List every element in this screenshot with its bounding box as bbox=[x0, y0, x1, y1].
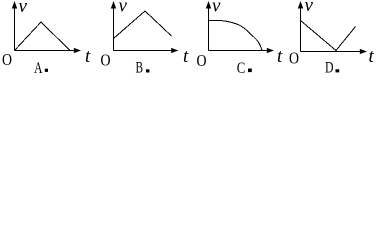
panel C: quarter-ellipse curve bbox=[209, 21, 263, 51]
panel A: v-axis bbox=[14, 6, 16, 51]
panel A: caption dot bbox=[45, 69, 48, 72]
svg-text:A: A bbox=[34, 60, 43, 77]
panel B: v-axis bbox=[113, 6, 115, 51]
panel D: V-shape curve bbox=[301, 21, 356, 51]
panel D: caption dot bbox=[336, 69, 340, 72]
panel A: triangle curve bbox=[15, 22, 71, 51]
svg-text:t: t bbox=[183, 46, 189, 67]
panel C: t-axis bbox=[209, 50, 269, 52]
svg-text:v: v bbox=[305, 0, 314, 16]
panel B: t-axis bbox=[114, 50, 173, 52]
svg-text:O: O bbox=[101, 51, 111, 70]
panel D: v-axis bbox=[300, 6, 302, 52]
panel D: t-axis arrow bbox=[360, 49, 367, 54]
svg-text:D: D bbox=[325, 60, 334, 77]
panel A: t-axis arrow bbox=[74, 48, 81, 53]
panel B: v-axis arrow bbox=[111, 1, 116, 9]
svg-text:t: t bbox=[85, 46, 91, 67]
svg-text:C: C bbox=[237, 60, 246, 77]
panel B: t-axis arrow bbox=[171, 48, 178, 53]
svg-text:t: t bbox=[277, 46, 283, 67]
panel B: caption dot bbox=[146, 69, 149, 72]
svg-text:B: B bbox=[136, 60, 144, 77]
panel C: v-axis bbox=[208, 6, 210, 51]
panel D: v-axis arrow bbox=[298, 1, 303, 9]
svg-text:v: v bbox=[19, 0, 28, 17]
panel A: v-axis arrow bbox=[12, 1, 17, 9]
svg-text:v: v bbox=[212, 0, 221, 17]
panel C: v-axis arrow bbox=[206, 1, 211, 9]
panel B: rise-fall curve bbox=[114, 11, 172, 39]
panel C: caption dot bbox=[248, 69, 252, 73]
panel C: t-axis arrow bbox=[267, 48, 274, 53]
svg-text:O: O bbox=[289, 49, 299, 68]
panel D: t-axis bbox=[301, 51, 362, 53]
svg-text:t: t bbox=[369, 46, 375, 67]
svg-text:O: O bbox=[197, 51, 207, 70]
panel A: t-axis bbox=[15, 50, 76, 52]
svg-text:v: v bbox=[119, 0, 128, 17]
svg-text:O: O bbox=[2, 50, 12, 69]
